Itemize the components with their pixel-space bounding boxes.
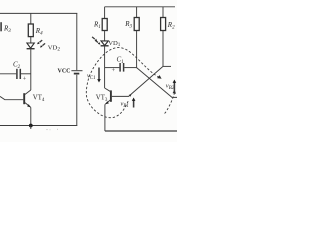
battery GB long plate [71, 70, 82, 72]
svg-text:R3: R3 [124, 20, 132, 30]
transistor VT3 [110, 90, 112, 101]
resistor R3 (right figure) [134, 18, 139, 31]
wire: VD1 to VT3 collector [104, 46, 106, 88]
wire: R3b top lead [136, 7, 138, 18]
svg-text:+: + [23, 76, 27, 83]
junction node at VT4 emitter / bottom rail [29, 124, 33, 128]
dashed current path main loop [86, 48, 159, 118]
wire: VT4 emitter down [30, 107, 32, 125]
wire: right figure top rail [105, 6, 175, 8]
wire: R1 top lead [104, 7, 106, 19]
svg-text:+: + [112, 67, 116, 74]
wire: right figure bottom rail [105, 130, 177, 132]
dust specks [46, 129, 58, 130]
wire: left figure top rail [0, 12, 77, 14]
VD2 light arrows [37, 40, 45, 48]
svg-text:R3: R3 [3, 25, 11, 35]
LED VD1 [101, 41, 108, 46]
wire: stub right of node [163, 65, 171, 67]
annotation arrow vC1 down [98, 68, 100, 81]
wire: cross-coupling R3b to right base [137, 68, 177, 98]
resistor R4 [28, 24, 33, 37]
resistor R3 (cut off at left edge) [0, 22, 2, 31]
battery GB short thick plate [74, 73, 80, 75]
wire: R1 to VD1 [104, 31, 106, 41]
svg-text:C2: C2 [13, 61, 21, 71]
svg-text:VD2: VD2 [48, 44, 61, 52]
dashed current path right branch [164, 93, 174, 114]
svg-text:R1: R1 [93, 21, 101, 31]
wire: R2 bottom lead [162, 31, 164, 67]
photodiode VD2 [27, 43, 34, 48]
svg-text:VD1: VD1 [108, 40, 121, 48]
wire: VD2 to VT4 collector [30, 49, 32, 90]
svg-text:vB2: vB2 [166, 83, 175, 91]
capacitor C2 plates [16, 69, 18, 79]
annotation arrow vB2 up [173, 82, 175, 92]
svg-text:VT3: VT3 [96, 95, 108, 104]
wire: R2 top lead [162, 7, 164, 18]
wire: left figure right rail lower [76, 75, 78, 126]
wire: C2 right lead [21, 73, 31, 75]
capacitor C1 plates [119, 63, 121, 72]
wire: R4 top lead [30, 13, 32, 24]
svg-text:R2: R2 [167, 21, 175, 31]
wire: C1 left lead [105, 67, 120, 69]
wire: cross-coupling R2 to VT3 base [112, 66, 163, 96]
resistor R1 [102, 19, 107, 31]
transistor VT4 [23, 93, 25, 104]
svg-text:R4: R4 [35, 27, 43, 37]
resistor R2 [161, 18, 166, 31]
wire: left figure right rail upper (to battery) [76, 13, 78, 70]
wire: R3b bottom lead [136, 31, 138, 68]
VD1 light arrows [92, 37, 100, 45]
wire: left figure bottom rail [0, 125, 77, 127]
wire: VT3 emitter down [104, 104, 106, 131]
svg-text:VCC: VCC [58, 69, 71, 75]
svg-text:VT4: VT4 [33, 95, 45, 104]
wire: C1 right lead [124, 67, 136, 69]
wire: R4 to VD2 [30, 37, 32, 43]
annotation arrow vB1 up [133, 100, 135, 108]
wire: C2 left lead [0, 73, 16, 75]
